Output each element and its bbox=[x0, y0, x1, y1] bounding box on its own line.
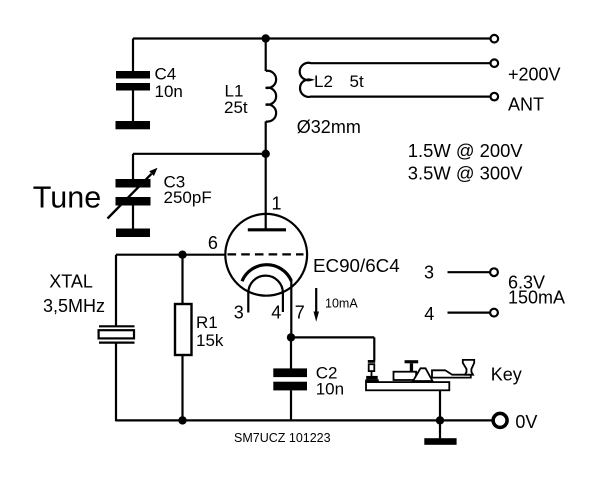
capacitor C4 plate 1 bbox=[116, 71, 150, 79]
left contact post stem bbox=[371, 371, 373, 376]
terminal L2 top bbox=[491, 59, 499, 67]
svg-text:7: 7 bbox=[295, 303, 305, 323]
key spring adjuster T bbox=[405, 360, 419, 363]
svg-text:XTAL: XTAL bbox=[49, 271, 93, 291]
C3 variable arrow bbox=[108, 168, 158, 219]
wire heater 3 bbox=[448, 271, 490, 273]
left contact post base bbox=[366, 376, 378, 380]
svg-text:6: 6 bbox=[208, 233, 218, 253]
resistor R1 bbox=[175, 304, 192, 355]
node junction grid / R1 bbox=[178, 251, 186, 259]
wire L1 bottom lead bbox=[265, 121, 267, 153]
wire heater 4 bbox=[448, 312, 490, 314]
svg-text:Key: Key bbox=[491, 364, 522, 384]
key base plate bbox=[366, 382, 449, 390]
svg-text:3,5MHz: 3,5MHz bbox=[43, 296, 105, 316]
wire R1 top lead bbox=[181, 255, 183, 305]
key knob (trumpet) bbox=[463, 360, 474, 375]
wire left branch lower (crystal to rail) bbox=[115, 343, 117, 422]
svg-text:3: 3 bbox=[234, 303, 244, 323]
terminal +200V bbox=[491, 35, 499, 43]
svg-text:10mA: 10mA bbox=[325, 297, 358, 311]
node junction cathode / C2 / key bbox=[287, 333, 295, 341]
ground (below key) bbox=[424, 438, 456, 445]
svg-text:250pF: 250pF bbox=[164, 188, 212, 207]
wire cathode lead (pin 7) bbox=[290, 281, 292, 338]
svg-text:5t: 5t bbox=[350, 72, 364, 91]
svg-text:3.5W @ 300V: 3.5W @ 300V bbox=[408, 162, 523, 183]
svg-text:10n: 10n bbox=[316, 379, 344, 398]
wire anode lead (pin 1) bbox=[265, 154, 267, 229]
svg-text:25t: 25t bbox=[224, 98, 248, 117]
node junction top rail / L1 bbox=[262, 34, 270, 42]
terminal heater 4 bbox=[490, 309, 498, 317]
node junction key / rail bbox=[436, 416, 444, 424]
crystal X1 bbox=[99, 326, 135, 342]
wire C2 bottom lead bbox=[290, 390, 292, 420]
svg-text:150mA: 150mA bbox=[508, 287, 565, 307]
cathode arc bbox=[242, 265, 291, 282]
key arm right bbox=[432, 370, 471, 377]
svg-text:ANT: ANT bbox=[508, 94, 544, 114]
wire key to 0V rail bbox=[439, 390, 441, 438]
wire C3 bottom lead bbox=[132, 206, 134, 230]
wire C4 top lead bbox=[132, 39, 134, 72]
svg-text:1: 1 bbox=[272, 193, 282, 213]
wire L1 top lead bbox=[265, 39, 267, 72]
svg-text:15k: 15k bbox=[196, 331, 224, 350]
key K1 (morse key) bbox=[365, 360, 474, 390]
wire 0V bottom rail bbox=[116, 419, 492, 421]
capacitor C2 plate 1 bbox=[273, 368, 307, 377]
svg-text:C4: C4 bbox=[155, 65, 177, 84]
svg-text:0V: 0V bbox=[515, 412, 537, 432]
inductor L1 bbox=[266, 71, 276, 122]
wire junction to key bbox=[291, 336, 374, 338]
left contact post box bbox=[369, 364, 375, 371]
svg-text:3: 3 bbox=[424, 262, 434, 282]
terminal heater 3 bbox=[490, 268, 498, 276]
capacitor C4 plate 2 bbox=[116, 83, 150, 91]
inductor L2 with leads to terminals bbox=[300, 63, 491, 97]
wire left branch upper (grid to crystal) bbox=[115, 255, 117, 327]
svg-text:Ø32mm: Ø32mm bbox=[297, 117, 361, 137]
anode plate bar bbox=[248, 228, 286, 231]
node junction C3 row / anode bbox=[262, 150, 270, 158]
left contact post top bar bbox=[368, 360, 375, 363]
capacitor C3 plate 1 bbox=[116, 179, 151, 188]
terminal ANT bbox=[491, 93, 499, 101]
left contact post base plate bbox=[365, 379, 379, 382]
capacitor C2 plate 2 bbox=[273, 382, 307, 391]
heater filament bbox=[248, 276, 283, 313]
terminal 0V bbox=[493, 413, 507, 427]
wire grid lead bbox=[116, 254, 226, 256]
node junction R1 / rail bbox=[178, 416, 186, 424]
wire C4 bottom lead bbox=[132, 91, 134, 122]
svg-text:Tune: Tune bbox=[33, 181, 101, 215]
wire C3 top lead bbox=[132, 154, 134, 180]
svg-text:4: 4 bbox=[424, 304, 434, 324]
svg-text:EC90/6C4: EC90/6C4 bbox=[313, 255, 400, 276]
svg-text:4: 4 bbox=[271, 303, 281, 323]
wire C2 top lead bbox=[290, 337, 292, 368]
key pivot hump bbox=[413, 368, 433, 381]
wire top +200V rail bbox=[133, 37, 491, 39]
wire R1 bottom lead bbox=[181, 355, 183, 420]
tube V1 envelope EC90/6C4 bbox=[225, 214, 307, 296]
grid (dashed) bbox=[228, 253, 304, 255]
key lever left pad bbox=[394, 372, 417, 380]
wire C3 row bbox=[133, 153, 266, 155]
svg-text:+200V: +200V bbox=[508, 65, 561, 85]
svg-text:1.5W @ 200V: 1.5W @ 200V bbox=[408, 140, 523, 161]
capacitor C3 plate 2 bbox=[116, 197, 151, 206]
svg-text:R1: R1 bbox=[196, 313, 218, 332]
current arrow 10mA bbox=[314, 288, 320, 322]
ground (below C3) bbox=[116, 229, 150, 238]
svg-text:SM7UCZ 101223: SM7UCZ 101223 bbox=[234, 431, 331, 445]
ground (below C4) bbox=[116, 121, 151, 129]
wire key drop bbox=[373, 337, 375, 360]
svg-text:10n: 10n bbox=[155, 82, 183, 101]
svg-text:L2: L2 bbox=[314, 72, 333, 91]
